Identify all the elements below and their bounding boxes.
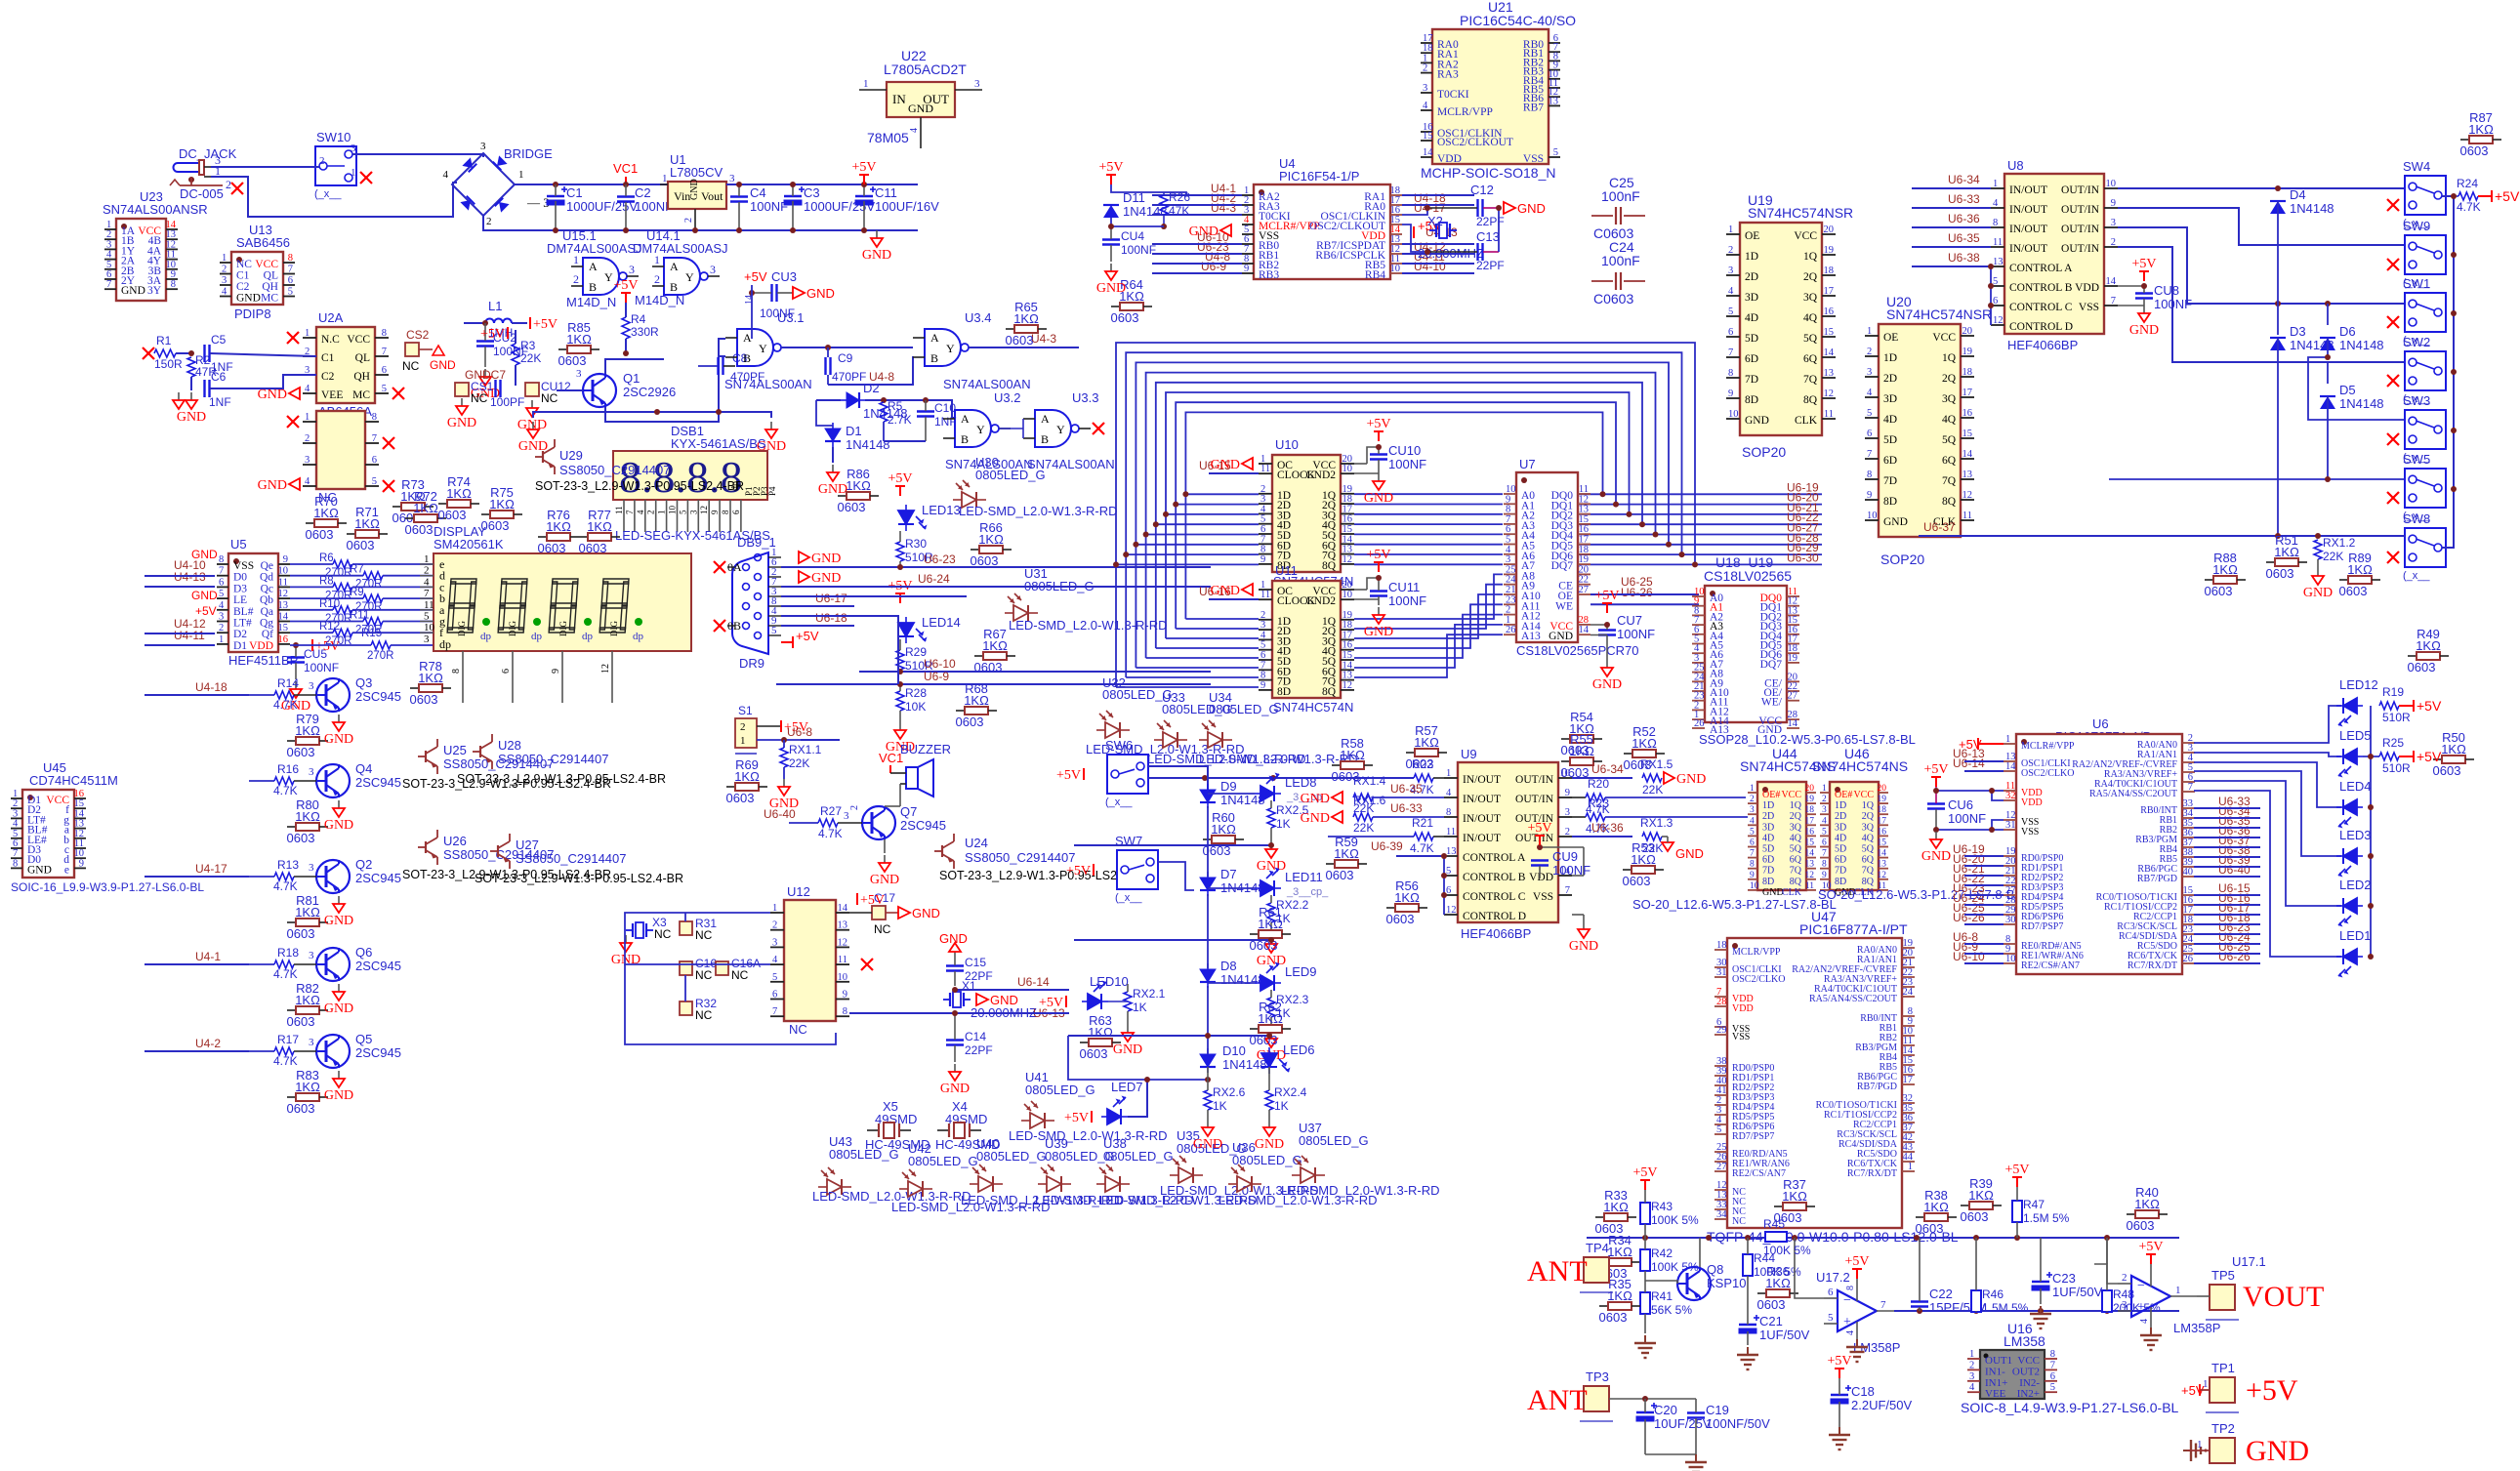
U10 OC GND label: [1199, 459, 1231, 472]
svg-text:L7805ACD2T: L7805ACD2T: [884, 61, 967, 77]
svg-text:31: 31: [2005, 820, 2016, 831]
svg-text:GND: GND: [912, 906, 940, 920]
svg-text:18: 18: [1716, 940, 1727, 951]
svg-text:4: 4: [772, 955, 778, 965]
LED LED5: [2336, 749, 2363, 778]
resistor R15 270R: [290, 628, 434, 662]
svg-text:DIG: DIG: [457, 621, 467, 636]
wire U6 left pin 987: [1964, 962, 2004, 964]
svg-text:5: 5: [772, 972, 777, 983]
wire D6 top: [2327, 304, 2329, 325]
wire RA rows to LEDs: [2194, 706, 2379, 960]
wire U3.2 out to U3.3: [999, 419, 1023, 438]
wire U9 control chain: [1443, 856, 1445, 915]
ground C18: [1829, 1427, 1850, 1450]
svg-text:3: 3: [1728, 266, 1733, 276]
svg-text:GND: GND: [1211, 584, 1240, 598]
svg-text:5D: 5D: [1762, 844, 1774, 855]
svg-text:LT#: LT#: [233, 618, 252, 630]
resistor R27 4.7K: [789, 804, 862, 840]
svg-text:dp: dp: [633, 631, 644, 642]
svg-text:1N4148: 1N4148: [1123, 204, 1168, 219]
svg-text:1D: 1D: [1745, 251, 1758, 263]
wire S1 U6-8: [801, 739, 840, 741]
svg-text:9: 9: [1565, 788, 1570, 798]
wire U6 RB0: [2194, 807, 2260, 809]
power +5V CU8: [2131, 257, 2156, 281]
svg-text:dp: dp: [582, 631, 594, 642]
svg-text:U2A: U2A: [318, 310, 344, 325]
svg-text:6Q: 6Q: [1803, 353, 1818, 365]
svg-text:CU8: CU8: [2154, 283, 2179, 298]
wire SW6 top out: [1148, 766, 1208, 790]
svg-text:12: 12: [699, 506, 709, 514]
capacitor CU10 100NF: [1354, 443, 1426, 473]
svg-text:D2: D2: [863, 381, 880, 395]
testpoint TP4: [1580, 1241, 1613, 1292]
diode D1: [825, 423, 841, 447]
resistor R48 200K 5%: [2102, 1238, 2161, 1315]
testpoint TP2: [2206, 1421, 2239, 1471]
IC U8 HEF4066BP: [1991, 158, 2118, 352]
svg-text:5D: 5D: [1883, 434, 1897, 446]
svg-text:4: 4: [443, 169, 449, 181]
capacitor CU5 100NF: [287, 642, 339, 679]
IC U16: [1961, 1321, 2179, 1415]
switch SW10: [314, 130, 372, 200]
svg-text:SW10: SW10: [316, 130, 351, 144]
svg-text:VC1: VC1: [879, 751, 903, 765]
svg-text:0603: 0603: [1623, 874, 1651, 888]
svg-text:4: 4: [1969, 1382, 1975, 1393]
svg-text:1KΩ: 1KΩ: [446, 486, 472, 501]
diode D11 1N4148: [1103, 205, 1119, 218]
svg-text:8: 8: [288, 253, 293, 264]
svg-text:GND: GND: [177, 410, 206, 425]
svg-text:+5V: +5V: [1039, 996, 1063, 1010]
resistor R1 150R: [143, 334, 191, 371]
wire U6-14: [955, 989, 1069, 991]
resistor R37: [1774, 1177, 1815, 1225]
svg-text:6: 6: [1867, 429, 1872, 439]
svg-text:4D: 4D: [1745, 312, 1758, 324]
svg-text:0603: 0603: [2460, 143, 2489, 158]
svg-text:22K: 22K: [520, 351, 541, 365]
svg-text:11: 11: [1260, 464, 1270, 474]
svg-text:3: 3: [629, 263, 635, 276]
svg-text:VDD: VDD: [1732, 1003, 1754, 1014]
svg-text:CLK: CLK: [1795, 415, 1818, 427]
svg-text:3Q: 3Q: [1803, 292, 1818, 304]
svg-text:OE: OE: [1745, 230, 1759, 242]
svg-text:0603: 0603: [2339, 584, 2368, 598]
svg-text:CS18LV02565PCR70: CS18LV02565PCR70: [1516, 643, 1639, 658]
wire LED7 net rail: [1068, 1036, 1208, 1080]
label X1 value: [962, 979, 1037, 1020]
svg-text:Q8: Q8: [1707, 1262, 1723, 1277]
svg-text:3: 3: [2122, 1299, 2128, 1311]
svg-text:100nF: 100nF: [1601, 253, 1640, 268]
svg-text:510R: 510R: [2382, 711, 2411, 724]
svg-text:GND: GND: [689, 179, 700, 200]
svg-text:2.2UF/50V: 2.2UF/50V: [1851, 1398, 1912, 1412]
wire U4 left pin: [1152, 263, 1242, 265]
svg-text:+5V: +5V: [744, 269, 767, 284]
resistor R14 4.7K: [249, 676, 316, 712]
switch column wires U8 to switches: [2118, 185, 2405, 362]
svg-text:2SC945: 2SC945: [355, 1045, 401, 1060]
ground U11 OC: [1211, 584, 1253, 598]
wire U6 left pin 790: [1964, 770, 2004, 772]
label LED9: [1285, 964, 1317, 979]
svg-text:RX1.3: RX1.3: [1640, 816, 1673, 830]
svg-text:SN74ALS00ANSR: SN74ALS00ANSR: [103, 202, 208, 217]
power +5V LED7: [1064, 1111, 1092, 1125]
wire U4 left pin: [1152, 243, 1242, 245]
svg-text:D8: D8: [1220, 959, 1237, 973]
svg-text:5Q: 5Q: [1942, 434, 1957, 446]
LED LED7: [1101, 1096, 1128, 1125]
svg-text:0603: 0603: [2205, 584, 2233, 598]
svg-text:1: 1: [518, 169, 524, 181]
svg-text:GND: GND: [236, 293, 261, 305]
svg-text:Y: Y: [1056, 423, 1065, 436]
svg-text:GND: GND: [1189, 225, 1219, 239]
label U42: [891, 1141, 1051, 1214]
capacitor C20 10UF/25V: [1636, 1399, 1712, 1454]
wire SW10 pin3 to bridge top: [352, 154, 483, 157]
label LED13: [922, 503, 961, 517]
svg-text:2SC945: 2SC945: [355, 959, 401, 973]
svg-text:14: 14: [2106, 276, 2117, 287]
wire U6-9 mid: [776, 683, 1211, 685]
label U26: [402, 834, 611, 881]
svg-text:1KΩ: 1KΩ: [295, 723, 320, 738]
svg-text:7: 7: [1880, 1299, 1886, 1311]
svg-text:MCLR#/VPP: MCLR#/VPP: [2021, 741, 2075, 752]
net labels U4 right: [1414, 191, 1458, 273]
display digits 8888: [447, 579, 643, 642]
svg-text:+5V: +5V: [1366, 417, 1390, 431]
svg-text:CU11: CU11: [1388, 580, 1420, 594]
svg-text:LED6: LED6: [1283, 1042, 1315, 1057]
svg-text:IN1-: IN1-: [1985, 1366, 2005, 1377]
svg-text:R28: R28: [905, 686, 927, 700]
power +5V R19: [2414, 698, 2442, 714]
svg-text:RA5/AN4/SS/C2OUT: RA5/AN4/SS/C2OUT: [2089, 789, 2177, 799]
svg-text:22K: 22K: [1642, 783, 1663, 797]
ground CU6: [1921, 832, 1951, 864]
svg-text:NC: NC: [541, 391, 558, 405]
wire U6 RC2: [2194, 914, 2260, 916]
svg-text:2: 2: [319, 155, 325, 167]
svg-text:DR9: DR9: [739, 656, 764, 671]
svg-text:11: 11: [1824, 409, 1834, 420]
svg-text:OUT/IN: OUT/IN: [1515, 774, 1554, 786]
svg-text:D3: D3: [233, 583, 247, 594]
svg-text:10: 10: [838, 972, 848, 983]
svg-text:2: 2: [305, 433, 310, 444]
svg-text:0603: 0603: [2408, 660, 2436, 674]
svg-text:LED-SMD_L2.0-W1.3-R-RD: LED-SMD_L2.0-W1.3-R-RD: [959, 504, 1118, 518]
svg-text:6Q: 6Q: [1942, 455, 1957, 467]
diode D5 1N4148: [2320, 396, 2335, 409]
svg-text:1Q: 1Q: [1862, 800, 1875, 811]
svg-text:U6-33: U6-33: [1390, 801, 1423, 815]
svg-text:VOUT: VOUT: [2243, 1281, 2324, 1313]
switch SW2: [2403, 335, 2446, 405]
svg-text:+5V: +5V: [1923, 762, 1948, 777]
label Q4: [309, 761, 401, 790]
svg-text:18: 18: [1824, 266, 1835, 276]
svg-text:+5V: +5V: [2131, 257, 2156, 271]
small pad CS2: [402, 328, 433, 373]
ground near U29: [518, 422, 548, 454]
svg-text:6D: 6D: [1883, 455, 1897, 467]
svg-text:1: 1: [1867, 326, 1872, 337]
capacitor C24 100nF: [1591, 239, 1645, 306]
svg-text:1: 1: [305, 412, 310, 423]
svg-text:GND: GND: [324, 732, 353, 747]
svg-text:28: 28: [1716, 997, 1727, 1007]
svg-text:0603: 0603: [726, 791, 755, 805]
svg-text:1KΩ: 1KΩ: [418, 671, 443, 685]
svg-text:C18: C18: [1851, 1384, 1875, 1399]
svg-text:MC: MC: [261, 293, 278, 305]
svg-text:U6-34: U6-34: [1591, 762, 1624, 776]
svg-text:1KΩ: 1KΩ: [1258, 917, 1283, 931]
net label U6-14: [1017, 975, 1050, 989]
svg-text:10: 10: [424, 622, 435, 633]
svg-text:D9: D9: [1220, 779, 1237, 794]
wire U5 D2: [145, 633, 215, 634]
LED U41: [1021, 1101, 1054, 1128]
svg-text:U9: U9: [1461, 747, 1477, 761]
svg-text:GND: GND: [811, 552, 841, 566]
svg-text:SS8050_C2914407: SS8050_C2914407: [516, 851, 627, 866]
svg-text:4Q: 4Q: [1942, 414, 1957, 426]
svg-text:PIC16F877A-I/PT: PIC16F877A-I/PT: [1799, 921, 1908, 937]
label LED11: [1285, 870, 1329, 898]
wire SW6 out long to U9: [1148, 777, 1414, 779]
wire DB9 U6-24: [781, 586, 1211, 588]
svg-text:0603: 0603: [287, 1014, 315, 1029]
svg-text:R30: R30: [905, 537, 927, 551]
LED LED2: [2336, 898, 2363, 927]
svg-text:2SC2926: 2SC2926: [623, 385, 676, 399]
svg-text:D2: D2: [233, 629, 247, 640]
diode D10: [1200, 1048, 1216, 1073]
resistor R42 100K 5%: [1640, 1238, 1699, 1281]
wire C12 C13 join: [1498, 208, 1500, 252]
diode D3 1N4148: [2270, 338, 2286, 350]
wire U12 bottom loop: [625, 964, 836, 1044]
svg-text:10: 10: [668, 506, 678, 515]
svg-text:18: 18: [1805, 805, 1815, 815]
svg-text:LED5: LED5: [2339, 728, 2372, 743]
svg-text:1KΩ: 1KΩ: [2468, 122, 2494, 137]
svg-text:U17.1: U17.1: [2232, 1254, 2266, 1269]
svg-text:C15: C15: [965, 956, 986, 969]
svg-text:U6-37: U6-37: [1923, 520, 1956, 534]
svg-text:GND: GND: [940, 1082, 970, 1096]
net label U6-39: [1371, 839, 1403, 853]
wire OSC2 to X2 row2: [1402, 225, 1427, 252]
svg-text:0805LED_G: 0805LED_G: [1103, 1149, 1174, 1164]
svg-text:CONTROL B: CONTROL B: [2009, 282, 2073, 294]
wire R48 top: [2106, 1238, 2108, 1264]
svg-text:RC7/RX/DT: RC7/RX/DT: [1847, 1168, 1897, 1179]
svg-text:7: 7: [2188, 782, 2193, 793]
svg-text:LED12: LED12: [2339, 677, 2378, 692]
svg-text:(_x__: (_x__: [314, 188, 342, 200]
transistor U27: [490, 834, 510, 869]
wire U5 D1: [145, 644, 215, 646]
IC U5 HEF4511BP: [217, 537, 298, 668]
svg-text:12: 12: [1824, 388, 1835, 399]
svg-text:9: 9: [1244, 264, 1249, 274]
IC U46: [1812, 746, 1908, 898]
IC U23 SN74ALS00ANSR: [103, 189, 208, 301]
svg-text:+5V: +5V: [888, 471, 912, 486]
svg-text:1KΩ: 1KΩ: [489, 497, 515, 511]
svg-text:0603: 0603: [1916, 1221, 1944, 1236]
svg-text:+5V: +5V: [1366, 548, 1390, 562]
wire R36 to +in: [1747, 1298, 1749, 1313]
svg-text:B: B: [743, 351, 751, 365]
svg-text:1KΩ: 1KΩ: [295, 809, 320, 824]
pad C17: [849, 891, 898, 936]
switch SW9: [2403, 219, 2446, 289]
svg-text:BUZZER: BUZZER: [900, 742, 951, 756]
svg-text:8: 8: [451, 669, 462, 674]
capacitor C5 1NF: [205, 333, 233, 374]
resistor R61: [1250, 905, 1291, 953]
display left pin names: [420, 553, 451, 651]
resistor R41 56K 5%: [1640, 1281, 1692, 1333]
label ANT tp4: [1527, 1255, 1588, 1287]
svg-text:U3.4: U3.4: [965, 310, 991, 325]
svg-text:8: 8: [171, 279, 176, 290]
svg-text:3: 3: [480, 141, 486, 152]
svg-text:9: 9: [2111, 198, 2116, 209]
svg-text:5: 5: [2050, 1382, 2055, 1393]
svg-text:D7: D7: [1220, 867, 1237, 881]
svg-text:27: 27: [1716, 1162, 1727, 1172]
wire U9 out2: [1572, 836, 1632, 838]
svg-text:+5V: +5V: [1056, 768, 1081, 783]
svg-text:U4-1: U4-1: [195, 950, 221, 963]
svg-text:U8: U8: [2007, 158, 2024, 173]
testpoint TP3: [1580, 1369, 1613, 1421]
svg-text:RX1.1: RX1.1: [789, 743, 822, 756]
svg-text:100nF: 100nF: [1601, 188, 1640, 204]
svg-text:4D: 4D: [1835, 833, 1846, 843]
svg-text:1K: 1K: [1133, 1001, 1147, 1014]
net label U4-8 mid: [869, 370, 894, 384]
svg-text:10: 10: [1750, 881, 1759, 891]
svg-text:CONTROL C: CONTROL C: [2009, 302, 2073, 313]
svg-text:1KΩ: 1KΩ: [734, 769, 760, 784]
svg-text:Q2: Q2: [355, 857, 372, 872]
LED U33: [1154, 720, 1187, 748]
net label U6-35: [1390, 782, 1423, 796]
svg-text:CU3: CU3: [771, 269, 797, 284]
resistor R85: [558, 320, 599, 368]
power +5V C18: [1827, 1354, 1851, 1378]
svg-text:0603: 0603: [405, 522, 434, 537]
resistor RX1.4 22K: [1353, 774, 1444, 815]
wire U10 clock: [1209, 472, 1259, 474]
svg-text:R15: R15: [361, 628, 382, 639]
svg-text:LED-SMD_L2.0-W1.3-R-RD: LED-SMD_L2.0-W1.3-R-RD: [1009, 1128, 1168, 1143]
svg-text:2SC945: 2SC945: [355, 871, 401, 885]
svg-text:U6-40: U6-40: [2218, 863, 2251, 877]
wire U6 RB4: [2194, 846, 2260, 848]
svg-text:0805LED_G: 0805LED_G: [1209, 702, 1279, 716]
svg-text:LED-SMD_L2.0-W1.3-R-RD: LED-SMD_L2.0-W1.3-R-RD: [1009, 618, 1168, 633]
resistor R83: [287, 1068, 328, 1116]
net labels U6-25 U6-26: [1621, 575, 1653, 599]
wire D5 to SW5: [2328, 396, 2405, 479]
svg-text:4.7K: 4.7K: [273, 784, 298, 797]
ground U10 OC: [1211, 458, 1253, 472]
wire bridge out rail VC1: [515, 184, 668, 185]
svg-text:MCLR/VPP: MCLR/VPP: [1437, 106, 1493, 118]
svg-text:VCC: VCC: [1794, 230, 1817, 242]
svg-text:dp: dp: [439, 637, 451, 651]
svg-text:19: 19: [1962, 347, 1973, 357]
svg-text:4: 4: [1750, 816, 1755, 826]
svg-text:A: A: [589, 260, 598, 273]
ground below RX2.3: [1257, 1031, 1286, 1063]
resistor RX2.4 1K: [1265, 1067, 1307, 1120]
gate U3.2 SN74ALS00AN: [943, 410, 1011, 447]
svg-text:13: 13: [1446, 846, 1457, 857]
svg-text:100NF: 100NF: [1552, 863, 1590, 878]
capacitor C22 15PF/50V: [1911, 1238, 1986, 1315]
net labels U4 left: [1197, 182, 1236, 273]
svg-text:0603: 0603: [438, 508, 467, 522]
svg-text:1D: 1D: [1835, 800, 1846, 811]
svg-text:+5V: +5V: [2417, 698, 2442, 714]
svg-text:22PF: 22PF: [1476, 259, 1505, 272]
svg-text:12: 12: [1343, 554, 1353, 565]
svg-text:1K: 1K: [1213, 1099, 1227, 1113]
svg-text:C5: C5: [211, 333, 227, 347]
svg-text:VDD: VDD: [2075, 282, 2099, 294]
resistor R30 510R: [896, 531, 933, 567]
svg-text:GND2: GND2: [1305, 595, 1336, 607]
svg-text:2: 2: [1728, 245, 1733, 256]
svg-text:+5V: +5V: [195, 604, 217, 618]
power +5V CU10: [1366, 417, 1390, 441]
svg-text:1N4148: 1N4148: [1220, 972, 1265, 987]
wire U11 Q to U7 A8-A14 stepped: [1354, 574, 1503, 677]
resistor R26 47K: [1160, 190, 1190, 229]
svg-text:SSOP28_L10.2-W5.3-P0.65-LS7.8-: SSOP28_L10.2-W5.3-P0.65-LS7.8-BL: [1699, 732, 1916, 747]
svg-text:B: B: [670, 280, 678, 294]
label U3.1: [724, 295, 812, 391]
capacitor C15 22PF: [946, 952, 993, 986]
svg-text:R8: R8: [319, 575, 334, 587]
capacitor C9 470PF: [826, 347, 867, 385]
svg-text:0603: 0603: [971, 553, 999, 568]
svg-text:U6-36: U6-36: [1948, 212, 1980, 225]
resistor R56: [1386, 879, 1427, 926]
label D3: [2290, 324, 2334, 352]
wire DB9 U6-17: [781, 605, 854, 607]
